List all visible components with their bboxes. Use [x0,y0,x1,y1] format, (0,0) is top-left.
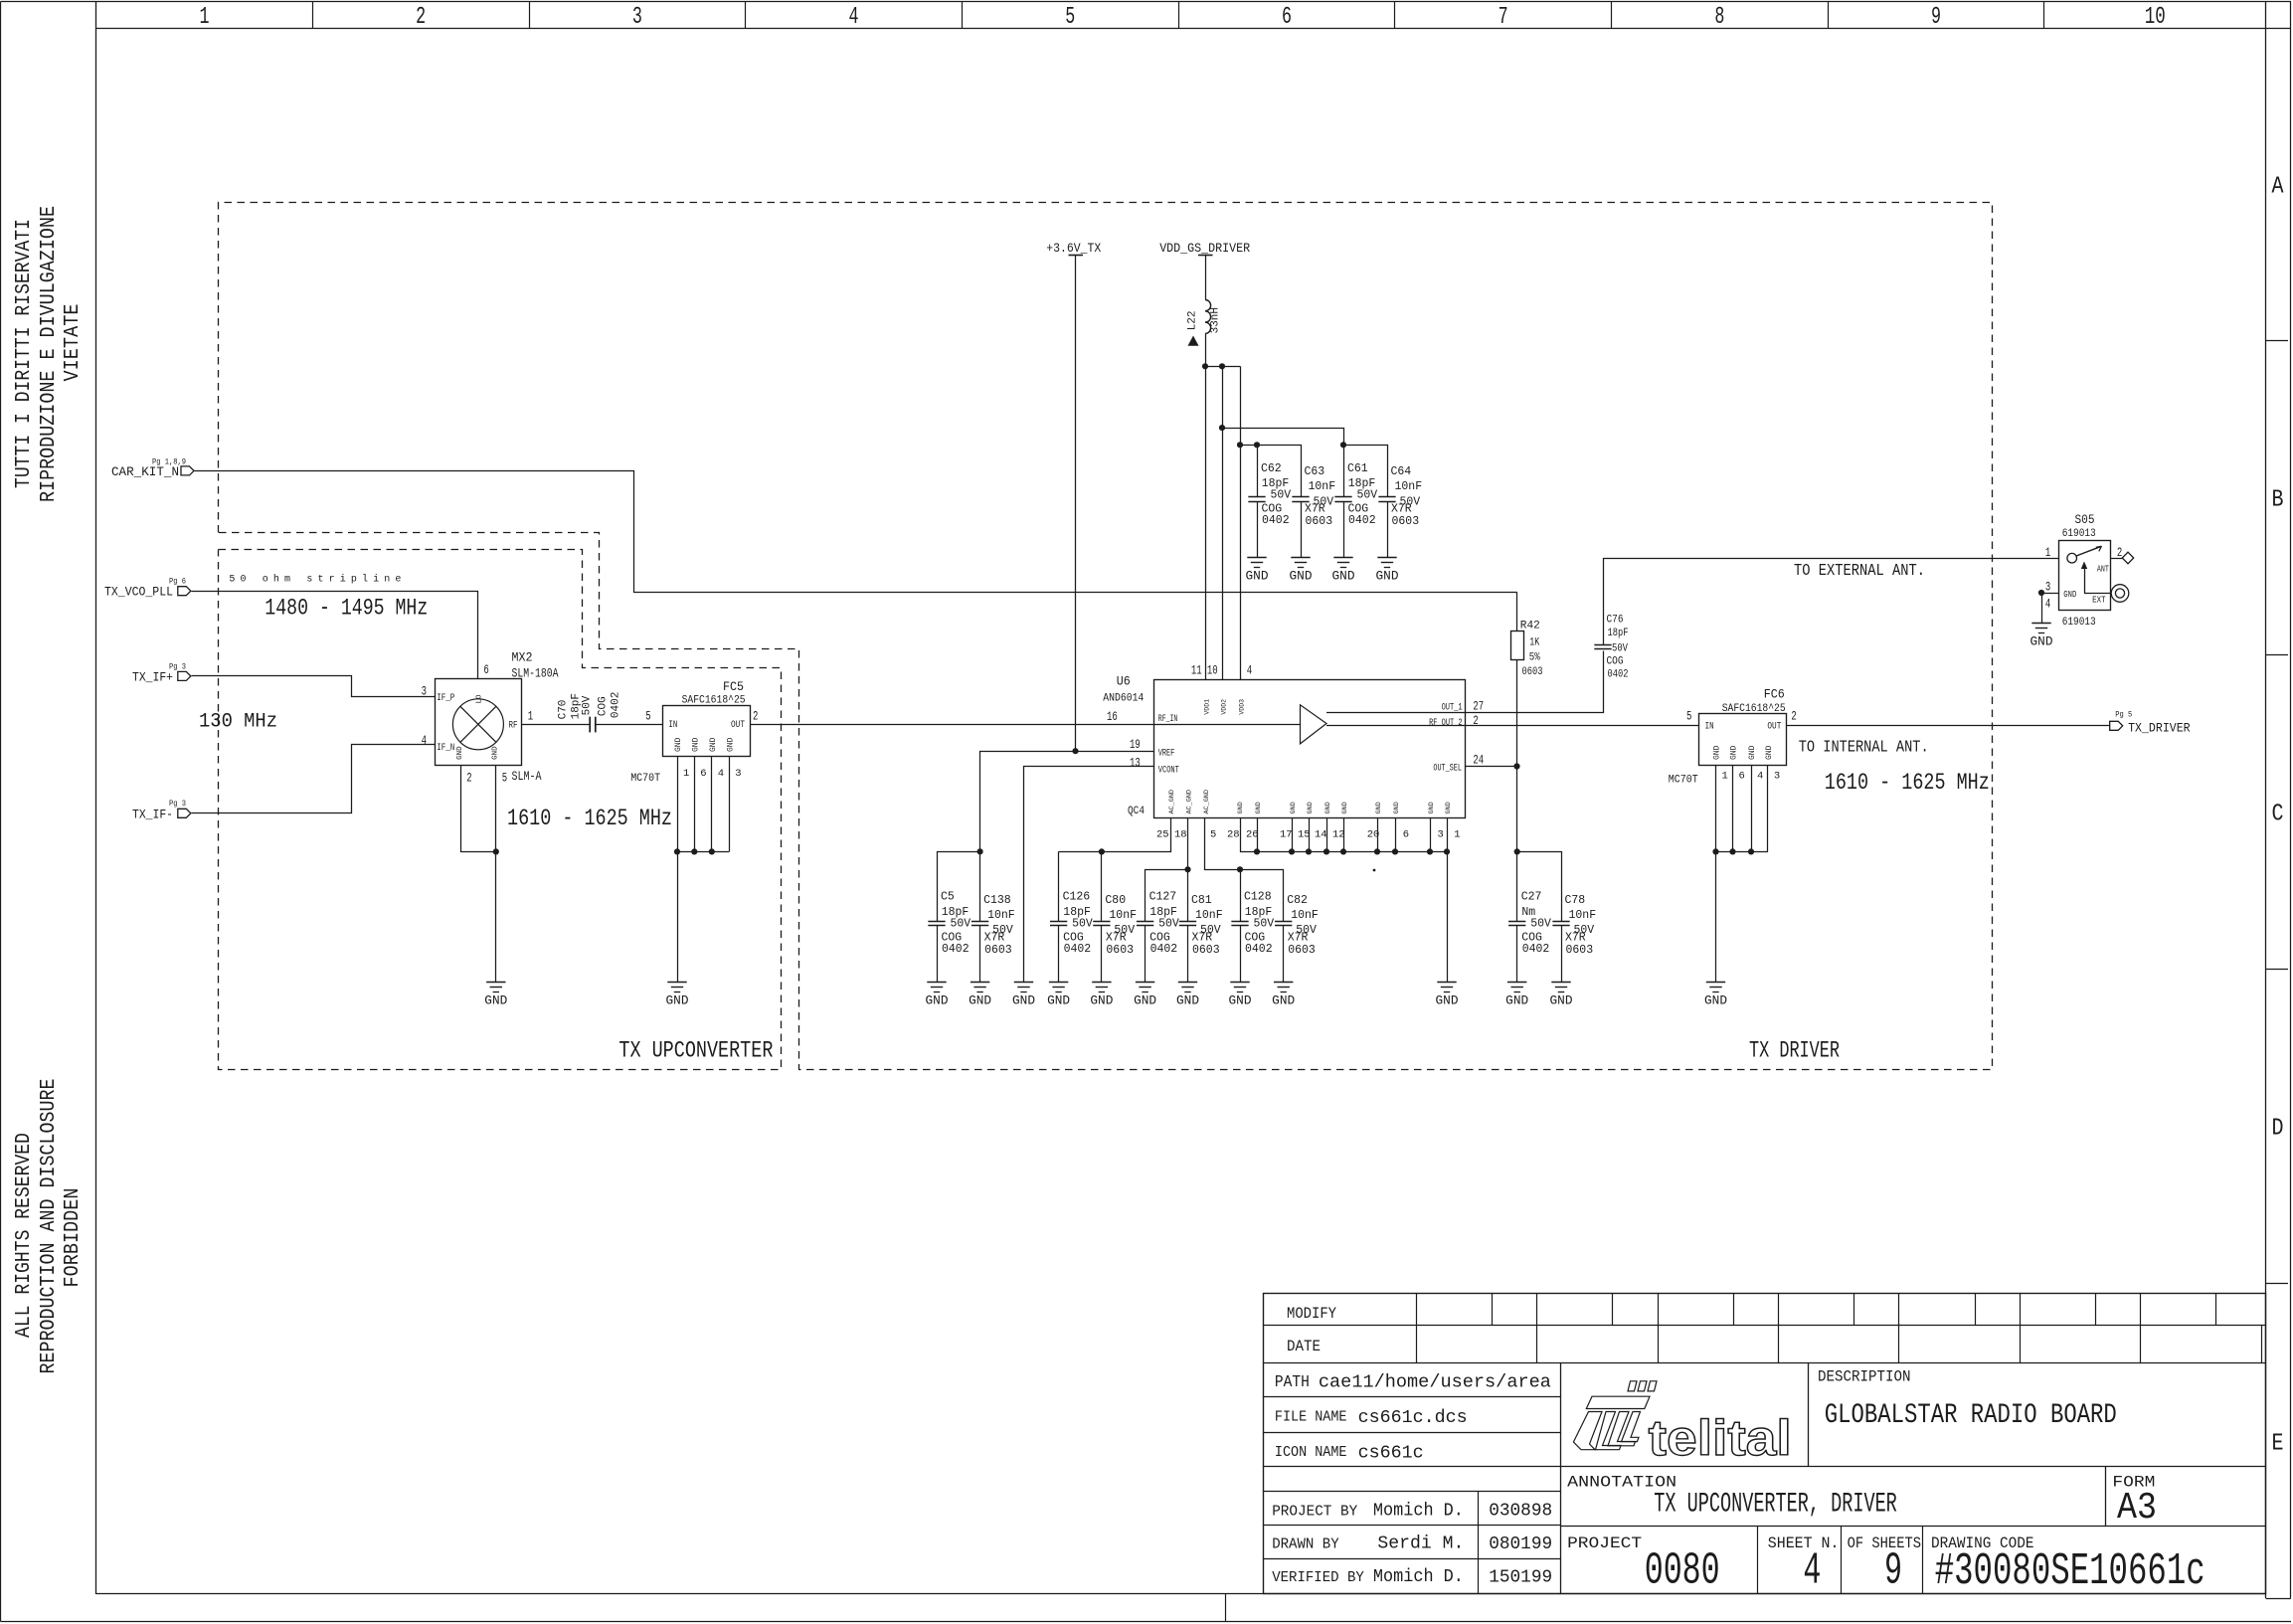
svg-text:1: 1 [528,710,533,724]
svg-text:9: 9 [1884,1546,1902,1597]
svg-text:IN: IN [1705,722,1714,733]
svg-text:GND: GND [2063,589,2076,600]
svg-text:R42: R42 [1520,621,1540,632]
svg-text:GND: GND [674,737,683,752]
svg-text:8: 8 [1714,4,1724,31]
ground C127 [1136,982,1154,984]
svg-text:10nF: 10nF [1109,909,1137,922]
svg-text:19: 19 [1130,738,1141,752]
svg-text:SLM-A: SLM-A [512,769,542,784]
junction MX2 gnd [493,848,499,854]
U6 gnd pin wire x=1351 [1343,817,1345,851]
resistor R42 box [1511,632,1524,660]
svg-text:IF_N: IF_N [437,743,454,754]
svg-text:C78: C78 [1565,894,1586,907]
wire C126 drop [1058,851,1060,921]
wire FC6 gnd bus [1716,851,1768,853]
capacitor C70 plates [589,717,591,733]
junction FC6 gnd 1 [1712,848,1718,854]
svg-text:AC_GND: AC_GND [1168,790,1176,813]
port TX_VCO_PLL symbol [178,587,191,596]
svg-text:18pF: 18pF [1608,628,1629,639]
svg-text:0402: 0402 [1608,669,1629,681]
filter FC6 pin 1 wire [1715,765,1717,851]
svg-text:GND: GND [1376,570,1399,584]
page border right [2290,2,2292,1599]
port CAR_KIT_N symbol [181,466,194,475]
svg-text:TX UPCONVERTER: TX UPCONVERTER [618,1038,773,1064]
svg-text:TX_IF-: TX_IF- [132,807,173,821]
svg-text:GND: GND [1730,745,1739,760]
column divider 4|5 [962,2,964,28]
svg-text:X7R: X7R [1305,503,1325,516]
junction FC6 gnd 2 [1729,848,1735,854]
page border left [0,2,2,1622]
wire L22 to U6 VDD1 pin11 [1205,333,1207,679]
svg-text:RF: RF [509,721,518,732]
svg-text:OUT: OUT [731,720,745,731]
svg-text:GND: GND [1255,802,1263,813]
svg-text:GND: GND [1290,570,1313,584]
svg-text:MODIFY: MODIFY [1287,1305,1336,1323]
titleblock PROJECT BY row line [1263,1525,1560,1527]
U6 pin18 wire [1187,818,1189,870]
svg-text:C127: C127 [1149,891,1177,904]
svg-text:+3.6V_TX: +3.6V_TX [1046,242,1101,256]
svg-text:TX_DRIVER: TX_DRIVER [2128,721,2191,736]
port TX_IF+ symbol [178,671,191,680]
junction FC6 gnd 3 [1748,848,1754,854]
ground C80 [1092,982,1111,984]
row divider D|E [2266,1283,2288,1285]
svg-text:GND: GND [1272,994,1295,1008]
svg-text:GND: GND [1428,802,1436,813]
filter FC6 pin 6 wire [1732,765,1734,851]
svg-text:0402: 0402 [942,943,970,956]
svg-text:11: 11 [1191,663,1202,677]
svg-text:Pg 1,8,9: Pg 1,8,9 [152,457,186,467]
switch S05 pin 3 wire [2041,593,2058,595]
telital logo mark [1628,1381,1637,1391]
ground C128 [1230,982,1249,984]
svg-text:ICON NAME: ICON NAME [1275,1444,1347,1461]
capacitor C82 plates [1275,921,1292,923]
column divider 8|9 [1828,2,1830,28]
titleblock MODIFY row line [1263,1325,2266,1327]
power VDD_GS_DRIVER tick [1198,255,1213,257]
mixer MX2 circle [452,699,503,750]
stray plot dot [1373,869,1376,872]
svg-text:SAFC1618^25: SAFC1618^25 [1722,703,1786,715]
ground VCONT [1014,982,1033,984]
svg-text:RF_OUT_2: RF_OUT_2 [1429,718,1463,729]
svg-text:GND: GND [1704,994,1727,1008]
svg-text:0603: 0603 [984,944,1012,957]
svg-text:6: 6 [483,663,488,677]
wire VDD_GS_DRIVER to L22 [1205,256,1207,300]
svg-text:030898: 030898 [1489,1502,1552,1522]
svg-text:AND6014: AND6014 [1103,693,1144,705]
junction bus at pin1 [1444,848,1450,854]
U6 gnd pin wire x=1299 [1292,817,1294,851]
U6 gnd pin wire x=1403 [1395,817,1397,851]
titleblock DATE row line [1263,1362,2266,1364]
svg-text:GLOBALSTAR RADIO BOARD: GLOBALSTAR RADIO BOARD [1825,1400,2117,1431]
junction VDD2 branch [1219,425,1225,431]
capacitor C127 plates [1137,921,1153,923]
svg-text:GND: GND [666,994,689,1008]
svg-text:OUT: OUT [1767,722,1781,733]
filter FC6 pin 3 wire [1767,765,1769,851]
wire OUT_SEL from U6 [1465,766,1517,768]
svg-text:C76: C76 [1607,615,1624,627]
svg-text:GND: GND [1550,994,1573,1008]
svg-text:C5: C5 [941,891,955,904]
svg-text:PATH: PATH [1275,1373,1310,1392]
svg-text:VDD1: VDD1 [1204,699,1211,715]
wire RF_OUT_2 inside U6 [1326,725,1465,727]
svg-text:EXT: EXT [2092,595,2106,606]
wire TX_IF- to MX2 IF_N [192,745,436,813]
svg-text:GND: GND [456,746,464,760]
svg-text:9: 9 [1931,4,1941,31]
svg-text:33nH: 33nH [1210,307,1222,333]
svg-text:C81: C81 [1191,894,1212,907]
column divider 9|10 [2043,2,2045,28]
wire MX2 pin5 to GND [495,765,497,982]
wire C5 link [938,852,980,922]
svg-text:4: 4 [2045,598,2050,612]
svg-text:15: 15 [1298,829,1311,841]
letter column bottom tick [2266,1598,2291,1600]
svg-text:U6: U6 [1117,674,1131,689]
wire +3.6V_TX down to VREF [1075,256,1077,752]
svg-text:2: 2 [416,4,426,31]
svg-text:26: 26 [1246,829,1259,841]
wire OUT_1 to C76 [1466,651,1604,713]
svg-text:GND: GND [1237,802,1245,813]
svg-text:4: 4 [1757,771,1763,783]
wire CAR_KIT_N to R42 [195,471,1517,593]
U6 gnd bus junction x=1299 [1289,848,1295,854]
wire C78 link [1517,852,1562,922]
svg-text:X7R: X7R [984,932,1005,945]
svg-text:GND: GND [1290,802,1298,813]
titleblock PROJECT cell divider [1757,1527,1759,1594]
svg-text:GND: GND [1090,994,1113,1008]
capacitor C27 plates [1508,921,1525,923]
svg-text:QC4: QC4 [1128,806,1145,817]
svg-text:GND: GND [491,746,499,760]
ground FC6 [1706,982,1725,984]
capacitor C76 plates [1594,644,1611,646]
svg-text:VDD3: VDD3 [1239,699,1246,715]
svg-text:13: 13 [1130,757,1141,771]
wire C82 to GND [1283,926,1285,983]
titleblock MODIFY cell dividers [1416,1294,1418,1326]
svg-text:2: 2 [1791,710,1796,724]
wire VDD3 down pin4 [1240,366,1242,679]
svg-text:3: 3 [2045,581,2050,595]
svg-text:OUT_1: OUT_1 [1442,703,1463,714]
svg-text:2: 2 [753,710,758,724]
switch S05 arrow to ANT [2084,566,2086,594]
U6 amp triangle [1301,705,1327,744]
svg-text:X7R: X7R [1288,932,1309,945]
junction +3.6V_TX on VREF [1072,748,1078,754]
svg-text:Serdi M.: Serdi M. [1377,1534,1464,1554]
svg-text:C64: C64 [1391,465,1412,478]
junction VDD node b [1219,363,1225,369]
row divider B|C [2266,654,2288,656]
svg-text:3: 3 [632,4,642,31]
titleblock FORM cell divider [2105,1466,2107,1526]
svg-text:C: C [2272,802,2284,828]
wire C128 drop [1240,869,1242,921]
U6 gnd bus junction x=1438 [1427,848,1433,854]
titleblock DESCRIPTION row line [1560,1466,2266,1468]
svg-text:VDD_GS_DRIVER: VDD_GS_DRIVER [1159,242,1250,256]
svg-text:0402: 0402 [611,692,622,718]
U6 pin5 wire [1205,818,1241,870]
wire C81 to GND [1187,926,1189,983]
svg-text:E: E [2272,1431,2284,1458]
svg-text:4: 4 [849,4,859,31]
switch S05 pin 2 wire [2111,558,2123,560]
svg-text:VCONT: VCONT [1158,766,1179,777]
svg-text:GND: GND [1375,802,1383,813]
svg-text:DRAWN BY: DRAWN BY [1272,1536,1339,1553]
svg-text:18: 18 [1174,829,1187,841]
svg-text:GND: GND [727,737,736,752]
wire C78 to GND [1561,926,1563,983]
svg-text:GND: GND [1341,802,1349,813]
wire TX_IF+ to MX2 IF_P [192,676,436,697]
svg-text:X7R: X7R [1192,932,1213,945]
switch S05 ANT port diamond [2122,552,2133,564]
svg-text:7: 7 [1499,4,1508,31]
U6 gnd bus junction x=1385 [1374,848,1380,854]
svg-text:17: 17 [1280,829,1293,841]
U6 gnd pin wire x=1385 [1377,817,1379,851]
svg-text:4: 4 [422,734,427,748]
titleblock empty row line [1263,1491,1560,1493]
titleblock PATH row line [1263,1396,1560,1398]
power +3.6V_TX tick [1069,255,1084,257]
wire VDD branch right [1205,366,1240,368]
svg-text:619013: 619013 [2062,528,2096,540]
junction C138 top [977,848,983,854]
wire TX_VCO_PLL to MX2 LO [192,592,478,679]
svg-text:27: 27 [1473,700,1484,714]
wire C81 drop [1187,869,1189,921]
svg-text:0603: 0603 [1106,944,1134,957]
switch S05 lever arrowhead [2096,546,2102,551]
filter FC6 pin 4 wire [1751,765,1753,851]
svg-text:IN: IN [668,720,677,731]
ground MX2 [486,982,505,984]
svg-text:GND: GND [709,737,718,752]
svg-text:50V: 50V [1612,643,1628,655]
frame bottom edge [96,1593,2266,1595]
svg-text:0603: 0603 [1288,944,1316,957]
svg-text:0402: 0402 [1245,943,1273,956]
port TX_IF- symbol [178,809,191,817]
svg-text:telital: telital [1649,1410,1792,1466]
svg-text:C63: C63 [1305,465,1325,478]
wire C61 to GND [1343,501,1345,557]
svg-text:50V: 50V [1530,917,1551,930]
ground U6 pin1 [1437,982,1456,984]
ground C78 [1551,982,1570,984]
svg-text:GND: GND [1332,570,1355,584]
row divider A|B [2266,340,2288,342]
svg-text:GND: GND [484,994,507,1008]
svg-text:GND: GND [1012,994,1035,1008]
capacitor C5 plates [928,921,945,923]
svg-text:GND: GND [1445,802,1453,813]
svg-text:FORBIDDEN: FORBIDDEN [62,1188,85,1288]
svg-text:TX_VCO_PLL: TX_VCO_PLL [104,585,173,600]
svg-text:5: 5 [1686,710,1691,724]
ground C64 [1377,557,1396,559]
filter FC5 pin 1 wire [677,756,679,851]
wire RF_OUT_2 to FC6 [1465,725,1699,727]
U6 gnd pin wire x=1316 [1309,817,1311,851]
wire R42 to OUT_SEL [1516,659,1518,765]
TX UPCONVERTER dashed boundary [219,550,782,1070]
ground S05 [2031,623,2050,625]
svg-text:GND: GND [1505,994,1528,1008]
svg-text:RIPRODUZIONE E DIVULGAZIONE: RIPRODUZIONE E DIVULGAZIONE [38,206,61,502]
column divider 3|4 [745,2,747,28]
wire C5 to GND [937,926,939,983]
mixer MX2 box [436,679,522,766]
svg-text:GND: GND [1393,802,1401,813]
capacitor C63 plates [1292,496,1309,498]
wire C76 up [1604,559,2059,645]
svg-text:130 MHz: 130 MHz [199,711,277,734]
wire C27 to GND [1516,926,1518,983]
svg-text:50V: 50V [1271,489,1292,502]
svg-text:5: 5 [1210,829,1216,841]
titleblock ANNOTATION row line [1560,1526,2266,1528]
svg-text:Pg 3: Pg 3 [169,799,186,809]
svg-text:12: 12 [1332,829,1345,841]
U6 gnd bus junction x=1334 [1323,848,1329,854]
svg-text:0080: 0080 [1645,1546,1720,1597]
svg-text:5: 5 [645,710,650,724]
svg-text:GND: GND [2030,635,2053,649]
svg-text:TX UPCONVERTER, DRIVER: TX UPCONVERTER, DRIVER [1654,1490,1897,1521]
svg-text:X7R: X7R [1106,932,1127,945]
svg-text:X7R: X7R [1565,932,1586,945]
wire FC5 gnd bus [677,851,729,853]
wire OUT_1 inside U6 [1326,712,1465,714]
column divider 1|2 [312,2,314,28]
capacitor C81 plates [1179,921,1196,923]
wire C62 drop [1257,445,1259,496]
svg-text:GND: GND [692,737,701,752]
svg-text:FC5: FC5 [723,679,744,694]
titleblock logo cell divider [1808,1362,1810,1466]
alert triangle at L22 [1188,336,1199,346]
svg-text:GND: GND [969,994,991,1008]
titleblock DRAWN BY row line [1263,1558,1560,1560]
svg-text:3: 3 [735,768,741,780]
svg-text:3: 3 [422,685,427,699]
svg-text:10nF: 10nF [987,909,1015,922]
ground C138 [970,982,989,984]
svg-text:TX_IF+: TX_IF+ [132,669,173,684]
svg-text:50V: 50V [951,917,971,930]
svg-text:cs661c: cs661c [1358,1443,1424,1464]
svg-text:1: 1 [2045,546,2050,560]
titleblock SHEET cell divider [1841,1527,1843,1594]
svg-text:1610 - 1625 MHz: 1610 - 1625 MHz [507,806,672,831]
column divider 6|7 [1394,2,1396,28]
wire VDD2 to C61 C64 [1223,429,1344,446]
column header strip bottom line [96,28,2291,30]
svg-text:0603: 0603 [1522,666,1543,678]
svg-text:50V: 50V [1158,917,1179,930]
titleblock left column divider [1560,1362,1562,1593]
wire C27 drop [1516,851,1518,921]
wire C64 to GND [1387,501,1389,557]
filter FC5 pin 4 wire [711,756,713,851]
svg-text:0402: 0402 [1348,514,1376,527]
svg-text:4: 4 [1803,1546,1821,1597]
svg-text:10: 10 [1207,663,1218,677]
titleblock OFSHEETS cell divider [1922,1527,1924,1594]
wire C61 drop [1343,445,1345,496]
svg-text:REPRODUCTION AND DISCLOSURE: REPRODUCTION AND DISCLOSURE [38,1079,61,1374]
frame right edge [2265,2,2267,1598]
svg-text:C27: C27 [1521,891,1542,904]
junction VDD3 at C62 [1237,442,1243,448]
junction C62 top [1254,442,1260,448]
titleblock date sub-divider [1478,1492,1480,1594]
svg-text:GND: GND [1748,745,1757,760]
junction OUT_SEL [1513,763,1519,769]
svg-text:PROJECT: PROJECT [1567,1534,1642,1552]
switch S05 lever [2076,547,2100,556]
U6 gnd pin wire x=1438 [1430,817,1432,851]
svg-text:LO: LO [476,694,484,704]
U6 pin28 wire [1241,818,1448,852]
U6 gnd bus junction x=1264 [1254,848,1260,854]
svg-text:50V: 50V [1072,917,1093,930]
filter FC5 pin 3 wire [729,756,731,851]
row divider C|D [2266,969,2288,971]
svg-text:0603: 0603 [1566,944,1594,957]
filter FC5 pin 6 wire [694,756,696,851]
wire VDD2 down pin10 [1222,366,1224,679]
svg-text:6: 6 [1282,4,1292,31]
junction C80 top [1099,848,1105,854]
page border top [1,1,2292,3]
ground C27 [1507,982,1526,984]
svg-text:619013: 619013 [2062,617,2096,629]
wire FC5 OUT to U6 RF_IN [750,724,1153,726]
svg-text:GND: GND [1176,994,1199,1008]
svg-text:28: 28 [1227,829,1240,841]
ground C62 [1247,557,1266,559]
U6 gnd bus junction x=1403 [1392,848,1398,854]
wire C138 drop [979,851,981,921]
svg-text:0603: 0603 [1306,515,1333,528]
svg-text:10nF: 10nF [1569,909,1597,922]
